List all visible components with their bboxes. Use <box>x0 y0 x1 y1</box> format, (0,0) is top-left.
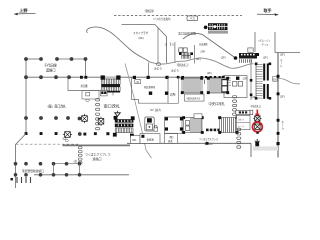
passage inner wall2 <box>194 45 196 64</box>
east wall <box>277 53 279 158</box>
red featured marker arrow <box>255 110 260 118</box>
EV box right of stair <box>273 77 278 82</box>
svg-text:東武野田線連絡口: 東武野田線連絡口 <box>22 169 44 173</box>
lower platform row1 <box>54 163 80 165</box>
svg-text:事務室: 事務室 <box>147 138 155 142</box>
office room right <box>224 76 247 98</box>
main stair S5 <box>255 63 271 100</box>
escalator boxes passage <box>179 48 193 59</box>
small box on top of S3b <box>194 114 202 119</box>
svg-text:中央口改札: 中央口改札 <box>209 101 226 106</box>
bus label box <box>187 16 198 21</box>
svg-text:(2F): (2F) <box>280 94 285 98</box>
svg-text:連絡口: 連絡口 <box>46 68 56 73</box>
diagonal road to south <box>125 64 152 159</box>
tiny ovals near dashes <box>63 138 66 140</box>
svg-text:中央改札口: 中央改札口 <box>250 104 261 108</box>
TX room <box>165 117 183 133</box>
stair S3 <box>181 77 203 94</box>
columns row y77 <box>24 75 71 79</box>
svg-text:改札: 改札 <box>168 139 174 143</box>
svg-text:EV: EV <box>273 78 277 81</box>
deck stub walls top right <box>254 32 256 52</box>
svg-text:(2F): (2F) <box>263 56 268 60</box>
M box <box>135 80 141 84</box>
columns row y118 <box>24 116 70 120</box>
bus shelter block <box>204 23 228 33</box>
stair S4b <box>218 116 238 134</box>
TX gate ovals small column <box>78 147 82 164</box>
svg-text:デッキ: デッキ <box>262 42 270 46</box>
svg-text:(2F): (2F) <box>196 57 201 61</box>
svg-text:つくばエクスプレス: つくばエクスプレス <box>199 137 218 141</box>
svg-text:(2F): (2F) <box>280 52 285 56</box>
NEWDAYS kiosk <box>185 94 205 101</box>
south gate machines column <box>96 99 100 130</box>
stair S3b <box>182 116 204 134</box>
svg-text:ホーム: ホーム <box>281 120 284 130</box>
svg-text:M: M <box>137 80 139 84</box>
passage inner wall <box>174 42 176 63</box>
svg-text:（臨時改札口）: （臨時改札口） <box>176 63 190 67</box>
svg-text:北口自由通路: 北口自由通路 <box>178 31 196 36</box>
tobu gate ticks <box>17 177 31 183</box>
svg-text:(3F): (3F) <box>201 49 206 53</box>
plaza boundary dashed line <box>114 15 242 17</box>
svg-text:(3F): (3F) <box>139 36 144 40</box>
svg-text:WC: WC <box>132 139 136 142</box>
elevator symbol B <box>98 117 104 126</box>
red circle highlight <box>253 122 263 132</box>
west wall top <box>26 58 41 60</box>
wavy concourse line <box>151 58 254 68</box>
svg-text:（2F）改札内: （2F）改札内 <box>149 108 161 112</box>
svg-text:NEWDAYS: NEWDAYS <box>187 96 201 100</box>
svg-text:（臨）南口改札: （臨）南口改札 <box>46 104 67 109</box>
svg-text:千代田線: 千代田線 <box>44 63 58 68</box>
TX gate squares row <box>206 129 220 132</box>
stair S2 dark <box>113 116 135 138</box>
dashed boundary south-west <box>16 134 27 145</box>
columns row y59 <box>24 57 87 61</box>
walkway S6 <box>239 48 259 63</box>
svg-text:(2F): (2F) <box>221 56 226 60</box>
funnel symbol <box>115 113 121 117</box>
elevator symbol C <box>63 132 72 138</box>
svg-text:券売機: 券売機 <box>81 84 88 88</box>
svg-text:ペデストリアン: ペデストリアン <box>258 38 271 42</box>
svg-text:つくばエクスプレス: つくばエクスプレス <box>85 152 111 157</box>
tab below circle <box>256 132 259 134</box>
svg-text:(2F): (2F) <box>252 95 257 99</box>
gates ovals right column <box>237 128 241 148</box>
elevator symbol at marker <box>253 116 261 121</box>
info table box <box>237 115 251 129</box>
direction arrow right <box>257 13 279 16</box>
stair S4a center <box>207 77 229 94</box>
bump box <box>154 127 158 131</box>
wavy path exiting east <box>279 78 301 83</box>
svg-text:（バスのりば案内）: （バスのりば案内） <box>152 17 172 21</box>
boxes along south wall <box>131 136 141 144</box>
building inner wall <box>157 28 159 63</box>
svg-text:(2F): (2F) <box>243 77 248 81</box>
kiosk box below <box>82 91 99 100</box>
divider mark between stairs <box>204 80 206 85</box>
curved road west <box>87 27 151 62</box>
rounded box TL of TX <box>145 117 154 131</box>
svg-text:詰所: 詰所 <box>170 92 176 96</box>
svg-text:取手: 取手 <box>264 7 272 13</box>
lower platform row2 <box>34 174 129 176</box>
svg-text:（整）: （整） <box>168 135 176 139</box>
elevator symbol A <box>82 114 88 123</box>
svg-text:（駅前広場）: （駅前広場） <box>144 9 156 13</box>
svg-text:南口改札: 南口改札 <box>104 104 121 109</box>
sign box <box>236 110 253 114</box>
south boundary walls <box>63 144 131 146</box>
svg-text:バス: バス <box>190 17 196 21</box>
columns row y133 <box>25 132 110 135</box>
svg-text:上野: 上野 <box>19 7 27 13</box>
svg-text:ホーム: ホーム <box>279 58 282 67</box>
svg-text:(2F): (2F) <box>207 71 212 75</box>
svg-text:みどり: みどり <box>171 68 179 72</box>
ticket office room <box>68 77 108 90</box>
gray corridor band <box>253 146 278 150</box>
deck edge rounded path to stairs <box>183 33 236 58</box>
svg-text:みどり: みどり <box>154 66 162 70</box>
station master office <box>132 77 168 103</box>
oval on concourse <box>156 63 160 66</box>
central gate machines column <box>233 96 237 116</box>
svg-text:自由通路: 自由通路 <box>199 42 208 46</box>
wall x148 <box>148 63 150 78</box>
stair well left wall <box>250 59 252 100</box>
svg-text:連絡口: 連絡口 <box>93 156 102 161</box>
direction arrow left <box>14 13 36 16</box>
small oval below kiosk <box>86 99 90 101</box>
svg-text:スカイプラザ: スカイプラザ <box>133 31 148 35</box>
node deck corner <box>234 56 238 60</box>
escalator spool symbol <box>254 139 260 149</box>
dark machines box <box>100 91 107 96</box>
svg-text:駅長事務室: 駅長事務室 <box>144 85 156 89</box>
building Sky Plaza outline <box>122 25 167 63</box>
elevator in red circle <box>255 124 260 129</box>
stair S1 at concourse <box>101 75 121 95</box>
concourse wall row y77 <box>26 76 224 78</box>
